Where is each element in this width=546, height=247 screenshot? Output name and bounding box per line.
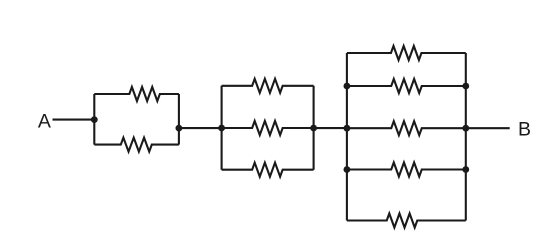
svg-text:A: A (38, 111, 51, 133)
svg-text:B: B (518, 119, 531, 141)
